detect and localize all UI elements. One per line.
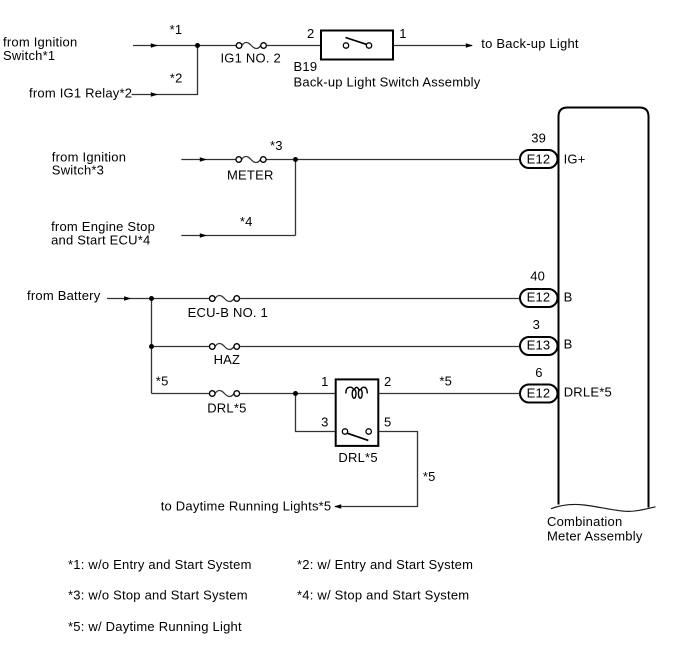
svg-text:DRL*5: DRL*5 (338, 450, 377, 465)
svg-text:Back-up Light Switch Assembly: Back-up Light Switch Assembly (294, 74, 481, 89)
svg-text:E12: E12 (527, 289, 551, 304)
svg-text:ECU-B NO. 1: ECU-B NO. 1 (188, 305, 268, 320)
svg-text:Combination: Combination (547, 514, 622, 529)
svg-text:from Battery: from Battery (27, 288, 101, 303)
svg-text:*5: w/ Daytime Running Light: *5: w/ Daytime Running Light (68, 619, 242, 634)
svg-text:DRL*5: DRL*5 (207, 401, 246, 416)
svg-text:1: 1 (321, 374, 328, 389)
svg-text:39: 39 (531, 130, 546, 145)
svg-text:*5: *5 (423, 469, 436, 484)
svg-text:3: 3 (533, 317, 540, 332)
svg-text:*2: *2 (170, 71, 183, 86)
svg-text:B19: B19 (294, 59, 318, 74)
svg-text:B: B (564, 336, 573, 351)
svg-text:from IG1 Relay*2: from IG1 Relay*2 (29, 86, 132, 101)
svg-text:*4: *4 (240, 214, 253, 229)
svg-text:2: 2 (307, 26, 314, 41)
svg-text:Switch*1: Switch*1 (3, 48, 55, 63)
svg-text:Meter Assembly: Meter Assembly (547, 529, 643, 544)
svg-text:*2: w/ Entry and Start System: *2: w/ Entry and Start System (297, 557, 473, 572)
svg-text:to Daytime Running Lights*5: to Daytime Running Lights*5 (161, 499, 332, 514)
svg-text:1: 1 (399, 26, 406, 41)
svg-text:2: 2 (384, 374, 391, 389)
svg-text:and Start ECU*4: and Start ECU*4 (51, 233, 150, 248)
svg-text:HAZ: HAZ (214, 352, 241, 367)
svg-text:*3: *3 (270, 138, 283, 153)
svg-text:E13: E13 (527, 337, 551, 352)
svg-text:E12: E12 (527, 151, 551, 166)
svg-text:DRLE*5: DRLE*5 (564, 384, 612, 399)
svg-text:to Back-up Light: to Back-up Light (481, 36, 579, 51)
svg-text:E12: E12 (527, 385, 551, 400)
svg-text:5: 5 (384, 414, 391, 429)
svg-text:6: 6 (535, 365, 542, 380)
svg-text:*5: *5 (439, 374, 452, 389)
svg-text:*3: w/o Stop and Start System: *3: w/o Stop and Start System (68, 588, 248, 603)
svg-text:*1: *1 (170, 22, 183, 37)
svg-text:*5: *5 (156, 374, 169, 389)
svg-text:Switch*3: Switch*3 (52, 163, 104, 178)
svg-text:B: B (564, 289, 573, 304)
svg-text:40: 40 (530, 269, 545, 284)
svg-text:IG+: IG+ (564, 151, 586, 166)
svg-text:3: 3 (321, 414, 328, 429)
svg-text:IG1 NO. 2: IG1 NO. 2 (220, 51, 281, 66)
svg-text:*4: w/ Stop and Start System: *4: w/ Stop and Start System (297, 588, 469, 603)
svg-text:METER: METER (227, 168, 274, 183)
svg-text:*1: w/o Entry and Start System: *1: w/o Entry and Start System (68, 557, 252, 572)
